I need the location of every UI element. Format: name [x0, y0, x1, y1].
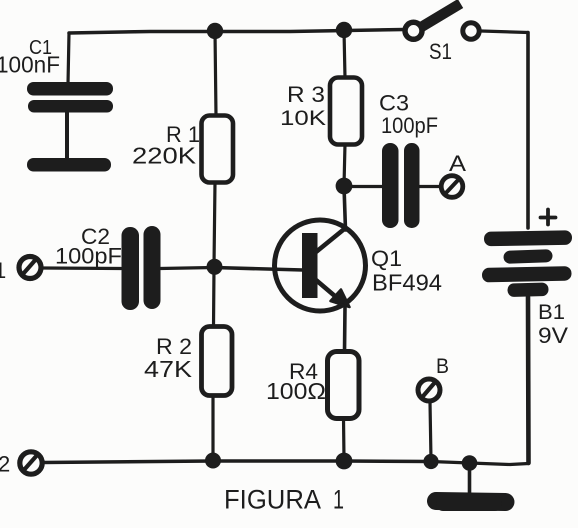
svg-text:B1: B1 [538, 301, 565, 324]
svg-text:1: 1 [0, 258, 6, 283]
wire node to C3 [344, 185, 383, 188]
svg-text:100Ω: 100Ω [266, 378, 326, 404]
svg-text:100pF: 100pF [381, 113, 438, 138]
svg-text:A: A [449, 151, 466, 176]
resistor R2 [202, 327, 233, 396]
svg-text:1: 1 [333, 485, 344, 515]
wire C2 to base node [160, 268, 214, 269]
wire ground branch drop [468, 463, 472, 495]
battery B1 [482, 230, 572, 297]
switch S1 [405, 4, 479, 40]
svg-text:10K: 10K [280, 107, 326, 130]
wire emitter lead [343, 307, 347, 352]
capacitor C3 [382, 143, 420, 228]
svg-text:47K: 47K [144, 356, 193, 382]
wire terminal 1 to C2 [42, 266, 121, 270]
node collector junction [336, 178, 353, 195]
svg-text:BF494: BF494 [372, 270, 442, 296]
wire battery top drop [526, 33, 530, 229]
node top rail / R1 [207, 23, 223, 39]
svg-text:B: B [436, 355, 449, 378]
capacitor C1 [27, 82, 113, 113]
svg-text:FIGURA: FIGURA [224, 485, 321, 515]
wire base node to Q1 base [214, 268, 303, 271]
node top rail / R3 [336, 22, 352, 38]
wire bottom rail: terminal 2 to R2 node [43, 461, 213, 463]
svg-text:100nF: 100nF [0, 52, 60, 78]
svg-text:220K: 220K [132, 143, 197, 169]
battery plus sign [541, 210, 556, 225]
wire C3 to terminal A [418, 185, 440, 188]
wire R1 top lead [215, 31, 216, 116]
wire battery bottom lead [526, 297, 531, 463]
svg-text:2: 2 [0, 452, 10, 477]
wire left drop to C1 [68, 33, 69, 84]
svg-text:R 3: R 3 [287, 82, 325, 107]
capacitor C2 [122, 226, 161, 310]
node ground branch [462, 455, 478, 471]
wire C1 bottom lead [65, 110, 69, 160]
terminal A [441, 176, 463, 198]
wire R2 top lead [212, 268, 216, 328]
wire R1 bottom lead [214, 182, 215, 266]
wire top rail [69, 30, 404, 34]
node bottom R2 [205, 453, 221, 469]
wire bottom rail: B node to ground node [431, 462, 470, 464]
svg-text:9V: 9V [538, 323, 568, 348]
transistor Q1 [275, 220, 366, 311]
wire bottom rail: R2 node to R4 node [213, 459, 344, 463]
node base junction [207, 259, 223, 275]
wire R4 bottom lead [342, 418, 346, 459]
node bottom B [423, 454, 438, 469]
wire S1 to battery corner [481, 31, 528, 33]
resistor R4 [328, 352, 360, 419]
wire collector lead [344, 186, 346, 230]
wire R3 bottom lead [344, 144, 345, 186]
wire R3 top lead [344, 30, 345, 78]
svg-text:C3: C3 [379, 91, 409, 116]
ground below C1 [27, 158, 111, 172]
wire bottom rail: ground node to battery wire [470, 463, 529, 465]
resistor R1 [202, 116, 234, 183]
node bottom R4 [336, 453, 353, 470]
resistor R3 [330, 78, 362, 145]
wire terminal B to rail [430, 402, 431, 460]
terminal B [418, 379, 440, 401]
svg-text:Q1: Q1 [371, 246, 402, 271]
svg-text:S1: S1 [429, 39, 452, 64]
wire bottom rail: R4 node to B node [344, 459, 431, 463]
wire R2 bottom lead [211, 395, 214, 460]
terminal 2 [20, 452, 42, 474]
ground (main, bottom right) [427, 492, 515, 511]
svg-text:100pF: 100pF [55, 244, 122, 269]
terminal 1 [19, 257, 41, 279]
